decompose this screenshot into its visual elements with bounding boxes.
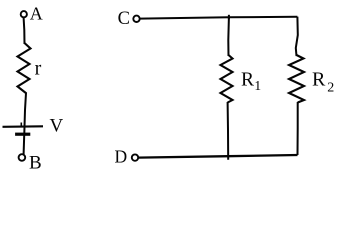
terminal D xyxy=(132,154,138,160)
wire top: C to right corner xyxy=(140,17,298,19)
wire battery to terminal B xyxy=(23,136,26,155)
node label A xyxy=(30,4,43,24)
battery V (cell: long and short plates) xyxy=(3,126,44,134)
terminal C xyxy=(133,16,139,22)
svg-text:2: 2 xyxy=(327,80,334,95)
svg-text:1: 1 xyxy=(254,78,261,93)
svg-text:R: R xyxy=(312,68,326,90)
wire A to resistor r xyxy=(23,18,26,44)
terminal B xyxy=(19,154,26,161)
wire R2 branch top (right side down from corner) xyxy=(296,17,298,56)
node label D xyxy=(115,147,128,167)
junction top of R1 branch xyxy=(228,15,230,19)
node label B xyxy=(29,153,42,174)
terminal A xyxy=(21,11,27,17)
value label R1 xyxy=(241,69,261,92)
value label V xyxy=(50,116,64,137)
svg-text:A: A xyxy=(30,4,43,24)
svg-text:V: V xyxy=(50,116,64,137)
svg-text:C: C xyxy=(118,9,130,29)
svg-text:B: B xyxy=(29,153,42,174)
svg-text:r: r xyxy=(35,57,42,79)
svg-text:R: R xyxy=(241,69,254,90)
wire R1 branch bottom xyxy=(227,102,230,160)
resistor R1 xyxy=(221,55,233,103)
wire stub artifact above battery plate xyxy=(20,123,22,128)
wire bottom: D to right corner xyxy=(138,155,297,158)
wire resistor r to battery xyxy=(24,93,26,134)
value label R2 xyxy=(312,68,334,95)
resistor r xyxy=(18,43,31,94)
svg-text:D: D xyxy=(115,147,128,167)
wire R2 branch bottom xyxy=(297,102,299,155)
resistor R2 xyxy=(289,55,304,103)
node label C xyxy=(118,9,130,29)
wire R1 branch top xyxy=(227,17,230,56)
value label r xyxy=(35,57,42,79)
